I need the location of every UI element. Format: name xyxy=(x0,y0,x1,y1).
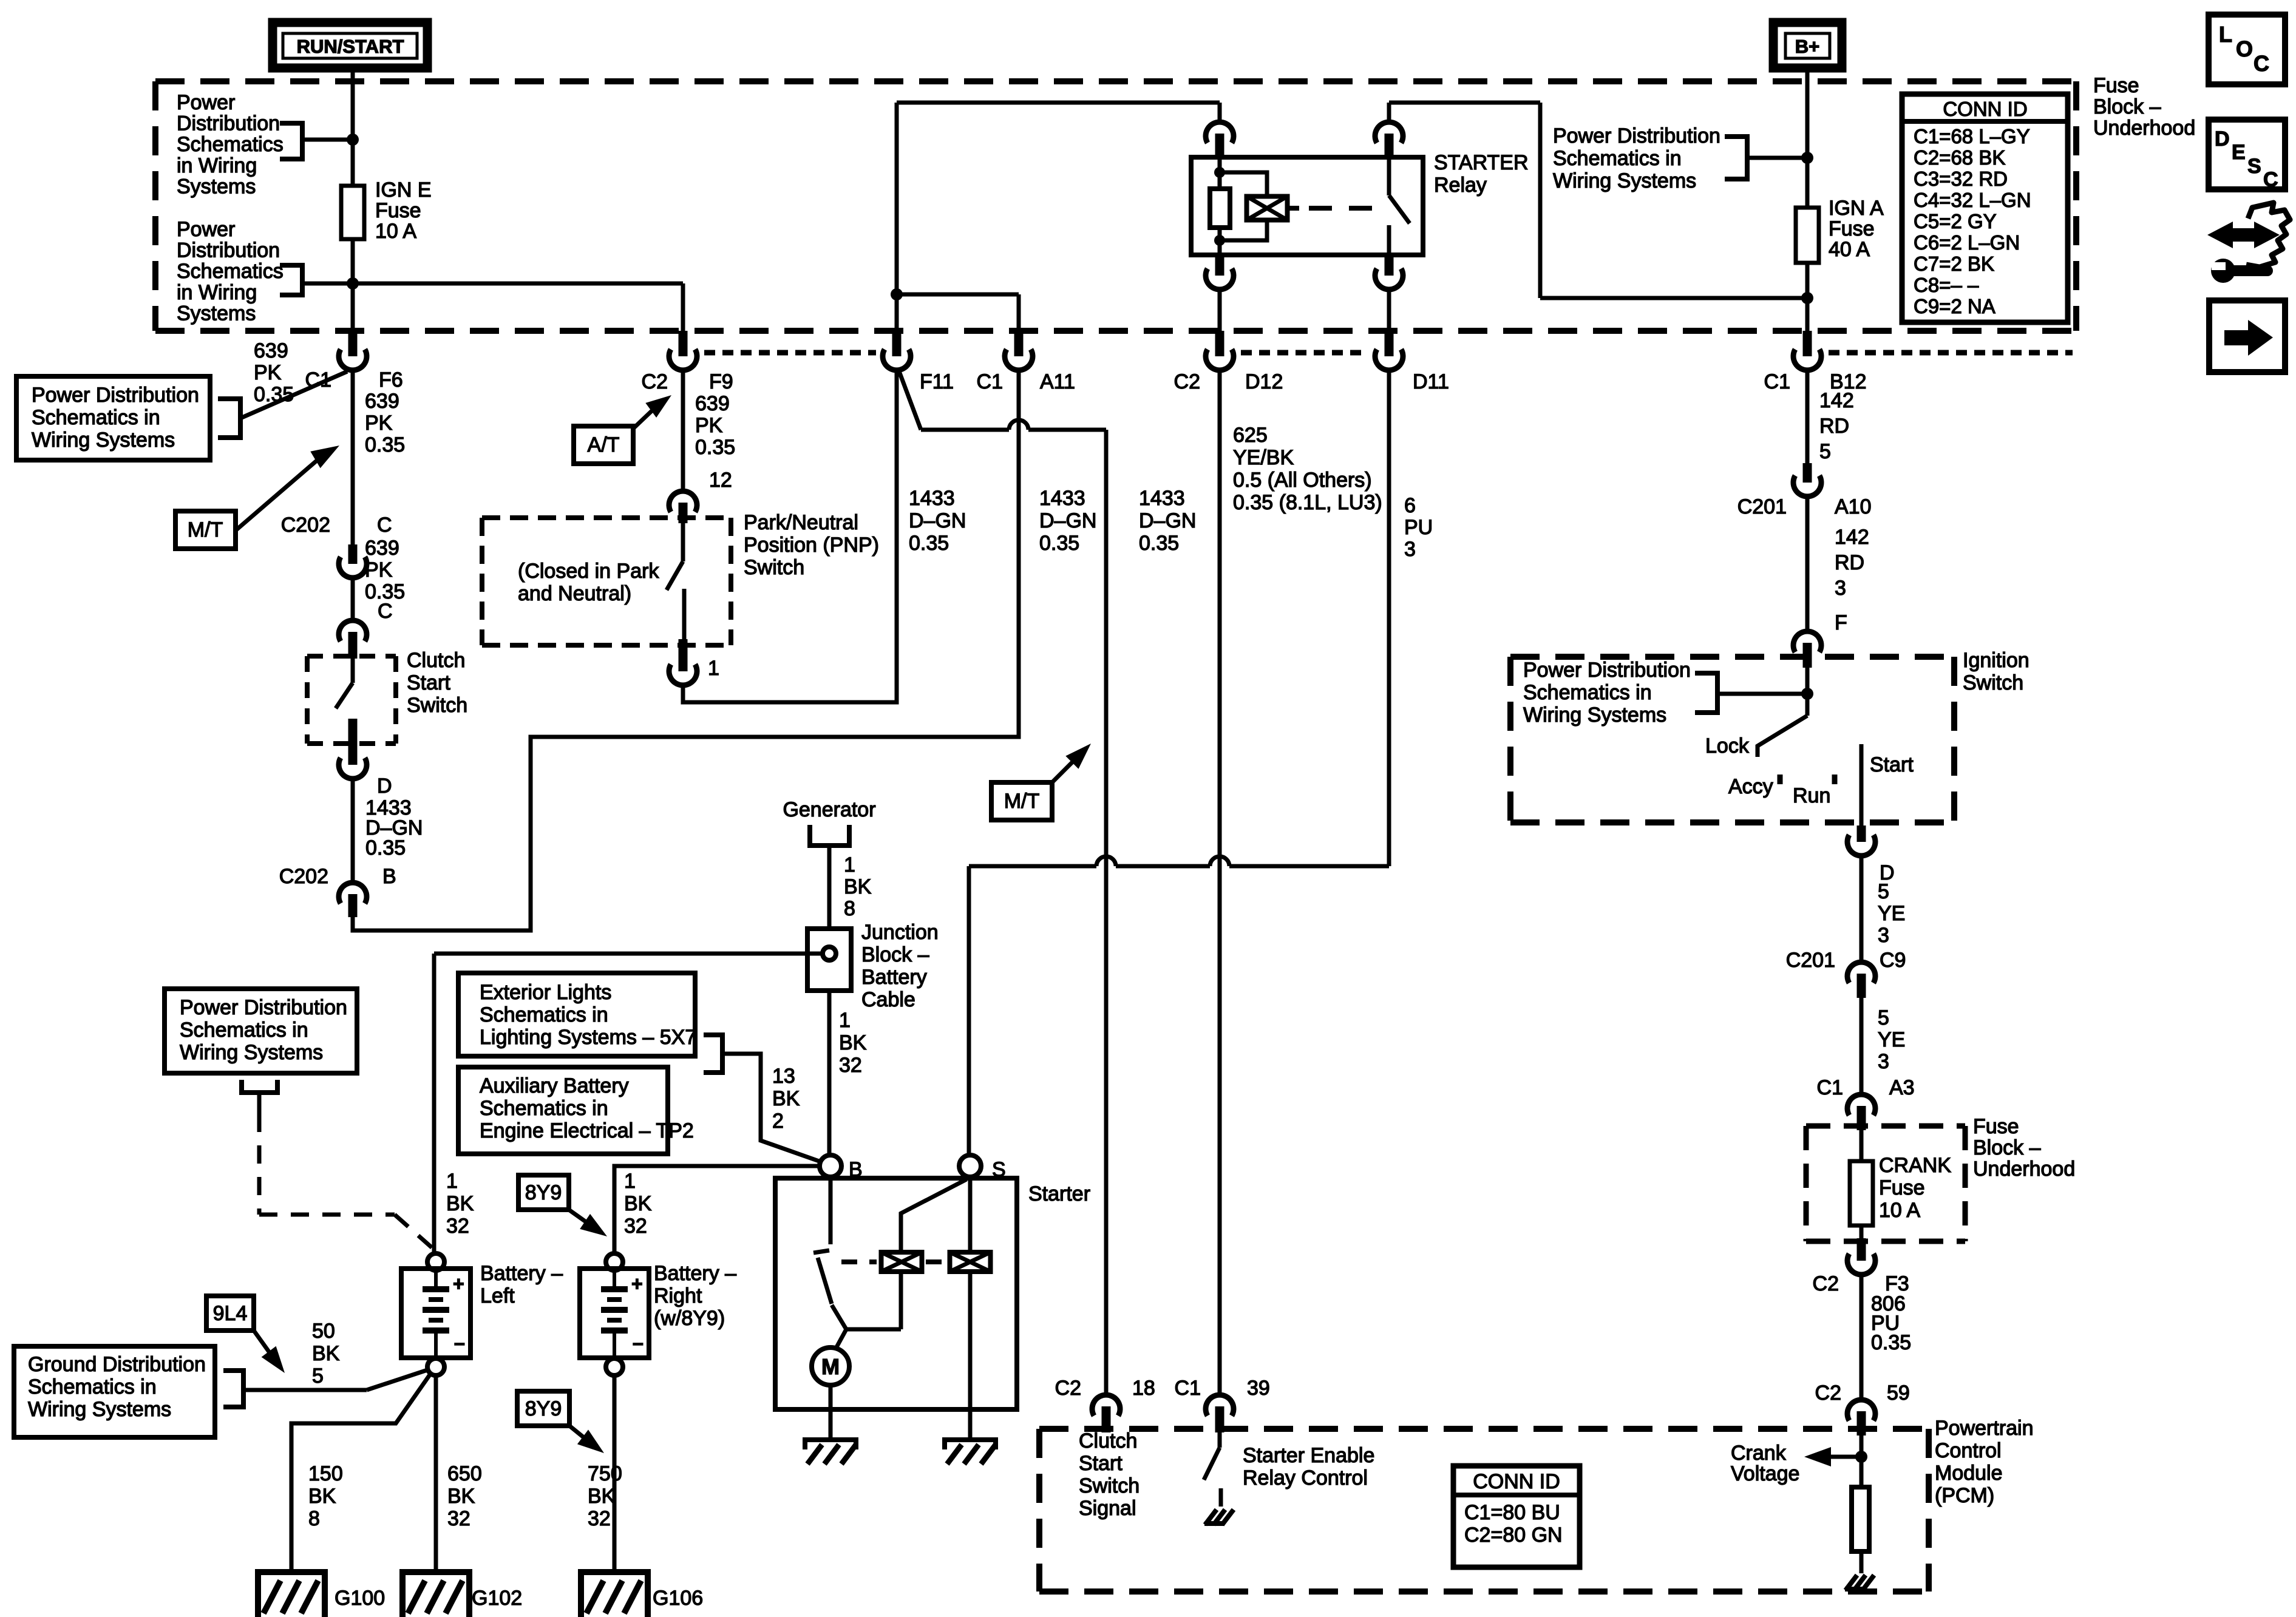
svg-text:Wiring Systems: Wiring Systems xyxy=(32,429,175,452)
svg-text:Power Distribution: Power Distribution xyxy=(180,996,347,1019)
svg-text:639: 639 xyxy=(695,392,730,415)
svg-text:in Wiring: in Wiring xyxy=(177,281,257,304)
svg-text:Power Distribution: Power Distribution xyxy=(1523,659,1691,682)
svg-text:1: 1 xyxy=(708,657,719,680)
svg-text:40 A: 40 A xyxy=(1829,238,1870,261)
wire ground distribution to battery minus xyxy=(243,1388,367,1392)
svg-text:Power: Power xyxy=(177,91,235,114)
svg-text:M: M xyxy=(821,1354,840,1379)
svg-text:8: 8 xyxy=(844,897,855,920)
relay switch blade xyxy=(1387,157,1391,195)
svg-text:CONN ID: CONN ID xyxy=(1943,98,2027,120)
starter motor ground wire xyxy=(829,1385,833,1440)
connector C into clutch start switch xyxy=(339,620,367,641)
wire IGN E to F6 xyxy=(351,239,355,333)
svg-text:Schematics: Schematics xyxy=(177,133,284,156)
connector C1 39 xyxy=(1206,1395,1234,1415)
svg-text:0.35: 0.35 xyxy=(1039,532,1079,555)
wire battery minus to G102 xyxy=(434,1375,438,1572)
svg-text:Schematics in: Schematics in xyxy=(32,406,160,429)
wire C201 to F connector xyxy=(1805,497,1810,631)
svg-text:Powertrain: Powertrain xyxy=(1935,1417,2034,1440)
9L4 reference box xyxy=(206,1296,254,1331)
connector C2 F9 xyxy=(679,331,688,356)
svg-text:150: 150 xyxy=(308,1462,343,1485)
starter motor xyxy=(812,1347,849,1385)
ground G102 xyxy=(402,1572,469,1617)
svg-text:32: 32 xyxy=(588,1507,611,1530)
8Y9 reference box bottom xyxy=(517,1391,569,1426)
svg-text:C2: C2 xyxy=(1815,1381,1841,1405)
svg-text:C1: C1 xyxy=(1175,1377,1201,1400)
svg-text:3: 3 xyxy=(1835,577,1846,600)
svg-text:Ignition: Ignition xyxy=(1963,649,2029,672)
svg-text:50: 50 xyxy=(312,1320,335,1343)
svg-text:C7=2 BK: C7=2 BK xyxy=(1914,253,1994,275)
wire bracket to B+ wire xyxy=(1747,156,1807,160)
svg-text:Battery –: Battery – xyxy=(480,1262,563,1285)
svg-text:Switch: Switch xyxy=(407,694,467,717)
connector C202 B xyxy=(339,883,367,903)
svg-text:–: – xyxy=(633,1332,644,1354)
svg-text:Power: Power xyxy=(177,218,235,241)
svg-text:RD: RD xyxy=(1819,415,1849,438)
svg-text:PK: PK xyxy=(695,414,723,437)
dotted connector face right of B12 xyxy=(1829,350,2073,356)
starter hold-in wire xyxy=(968,1177,973,1253)
svg-text:C1: C1 xyxy=(977,370,1003,393)
svg-text:32: 32 xyxy=(447,1507,470,1530)
svg-text:C1=68 L–GY: C1=68 L–GY xyxy=(1914,125,2030,147)
svg-text:Accy: Accy xyxy=(1728,775,1773,798)
svg-text:RUN/START: RUN/START xyxy=(297,36,404,57)
svg-text:10 A: 10 A xyxy=(1879,1199,1920,1222)
svg-text:Fuse: Fuse xyxy=(1973,1115,2019,1138)
junction dot relay switch feed xyxy=(1801,292,1813,304)
PNP switch blade xyxy=(681,523,685,561)
svg-text:Clutch: Clutch xyxy=(1079,1429,1137,1453)
relay internal junction dots xyxy=(1214,167,1225,178)
svg-text:BK: BK xyxy=(624,1192,652,1215)
svg-text:3: 3 xyxy=(1878,924,1889,947)
svg-text:B: B xyxy=(382,865,396,888)
svg-text:D–GN: D–GN xyxy=(909,509,966,532)
svg-text:Schematics in: Schematics in xyxy=(480,1003,608,1026)
svg-text:BK: BK xyxy=(844,875,872,898)
svg-text:625: 625 xyxy=(1233,424,1268,447)
wire C202 to clutch switch connector xyxy=(351,578,355,620)
svg-text:Fuse: Fuse xyxy=(2093,74,2139,97)
svg-text:Systems: Systems xyxy=(177,175,256,198)
svg-text:59: 59 xyxy=(1887,1381,1910,1405)
svg-text:Engine Electrical – TP2: Engine Electrical – TP2 xyxy=(480,1119,694,1142)
svg-text:5: 5 xyxy=(1819,440,1831,463)
crank voltage sense xyxy=(1860,1436,1864,1487)
svg-text:Ground Distribution: Ground Distribution xyxy=(28,1353,206,1376)
svg-text:Run: Run xyxy=(1793,784,1830,807)
svg-text:D11: D11 xyxy=(1413,370,1449,393)
connector C201 A10 xyxy=(1803,463,1812,483)
crank fuse dashed box xyxy=(1806,1124,1965,1129)
junction dot power distribution 1 xyxy=(347,134,359,146)
svg-text:and Neutral): and Neutral) xyxy=(518,582,631,605)
svg-text:142: 142 xyxy=(1835,526,1869,549)
svg-text:C5=2 GY: C5=2 GY xyxy=(1914,210,1997,232)
ignition switch dashed box xyxy=(1510,654,1954,660)
CONN ID table PCM xyxy=(1453,1466,1580,1567)
svg-text:0.35: 0.35 xyxy=(365,433,405,456)
wire generator to junction block xyxy=(827,846,832,929)
svg-text:PK: PK xyxy=(365,412,393,435)
svg-text:A/T: A/T xyxy=(588,433,620,456)
svg-text:Switch: Switch xyxy=(1079,1474,1140,1497)
svg-text:C202: C202 xyxy=(279,865,328,888)
svg-text:Module: Module xyxy=(1935,1462,2003,1485)
arrow 9L4 xyxy=(254,1331,272,1356)
svg-text:Start: Start xyxy=(1870,753,1914,776)
svg-text:(Closed in Park: (Closed in Park xyxy=(518,560,659,583)
A/T reference box xyxy=(574,426,633,464)
svg-text:Start: Start xyxy=(407,671,450,694)
svg-text:Underhood: Underhood xyxy=(1973,1158,2075,1181)
svg-text:Clutch: Clutch xyxy=(407,649,465,672)
fuse IGN A 40 A xyxy=(1796,208,1819,263)
arrow M/T to wire xyxy=(236,455,323,531)
svg-text:BK: BK xyxy=(588,1485,616,1508)
mini ground PCM xyxy=(1846,1575,1857,1590)
svg-text:Cable: Cable xyxy=(861,988,915,1011)
svg-text:Switch: Switch xyxy=(1963,671,2023,694)
svg-text:0.35: 0.35 xyxy=(695,436,735,459)
svg-text:–: – xyxy=(454,1332,465,1354)
wire horizontal with hop over A11 xyxy=(921,428,1009,432)
svg-text:YE: YE xyxy=(1878,1028,1905,1051)
junction dot power distribution 2 xyxy=(347,277,359,290)
svg-text:CRANK: CRANK xyxy=(1879,1154,1951,1177)
svg-text:D: D xyxy=(377,775,392,798)
svg-text:0.35: 0.35 xyxy=(1871,1331,1911,1354)
wire F11 diagonal to clutch signal riser xyxy=(898,370,921,430)
svg-text:39: 39 xyxy=(1247,1377,1270,1400)
wire F6 down to C202 xyxy=(351,370,355,544)
svg-text:D–GN: D–GN xyxy=(1139,509,1196,532)
svg-text:Schematics in: Schematics in xyxy=(480,1097,608,1120)
relay winding to switch dashed link xyxy=(1288,206,1299,211)
svg-text:Schematics: Schematics xyxy=(177,260,284,283)
svg-text:Schematics in: Schematics in xyxy=(28,1375,157,1398)
connector C1 F6 xyxy=(348,331,358,356)
fuse block underhood dashed box xyxy=(155,78,2076,84)
svg-text:PU: PU xyxy=(1404,516,1433,539)
svg-text:(PCM): (PCM) xyxy=(1935,1484,1994,1507)
starter box xyxy=(775,1178,1017,1409)
reference box auxiliary battery xyxy=(458,1067,668,1154)
bracket power distribution mid-left xyxy=(218,399,240,438)
svg-text:1: 1 xyxy=(624,1170,636,1193)
starter S diagonal to pull-in winding xyxy=(901,1179,966,1253)
svg-text:Power Distribution: Power Distribution xyxy=(32,384,199,407)
PNP lower contact xyxy=(682,589,687,639)
connector C201 C9 xyxy=(1847,962,1875,983)
svg-text:1433: 1433 xyxy=(1039,487,1085,510)
relay bottom pin D11 connector xyxy=(1385,255,1394,276)
arrow 8Y9 bottom xyxy=(569,1426,589,1442)
svg-text:PK: PK xyxy=(254,361,282,384)
wire D to C202 B xyxy=(351,779,355,883)
svg-text:Right: Right xyxy=(654,1284,702,1307)
svg-text:C3=32 RD: C3=32 RD xyxy=(1914,168,2008,190)
wire bracket to ignition dot xyxy=(1717,692,1807,696)
svg-text:BK: BK xyxy=(447,1485,475,1508)
svg-text:+: + xyxy=(453,1273,464,1295)
svg-text:3: 3 xyxy=(1878,1050,1889,1073)
svg-text:G106: G106 xyxy=(653,1587,703,1610)
svg-text:IGN A: IGN A xyxy=(1829,197,1884,220)
svg-text:CONN ID: CONN ID xyxy=(1473,1470,1560,1493)
connector F into ignition switch xyxy=(1793,631,1821,652)
svg-text:9L4: 9L4 xyxy=(213,1302,248,1325)
svg-text:Relay Control: Relay Control xyxy=(1243,1466,1368,1490)
sidebar LOC icon xyxy=(2209,15,2285,84)
svg-text:0.35 (8.1L, LU3): 0.35 (8.1L, LU3) xyxy=(1233,491,1382,514)
svg-text:142: 142 xyxy=(1819,389,1854,412)
svg-text:Start: Start xyxy=(1079,1452,1123,1475)
svg-text:32: 32 xyxy=(446,1215,469,1238)
svg-text:F11: F11 xyxy=(920,370,954,393)
svg-text:Starter: Starter xyxy=(1028,1182,1090,1205)
svg-text:M/T: M/T xyxy=(188,518,223,541)
starter grounds xyxy=(805,1440,856,1449)
svg-text:C8=– –: C8=– – xyxy=(1914,274,1979,296)
connector C2 59 xyxy=(1847,1400,1875,1420)
svg-text:1: 1 xyxy=(844,853,855,876)
svg-text:0.5 (All Others): 0.5 (All Others) xyxy=(1233,469,1372,492)
PNP dashed box xyxy=(482,515,731,520)
svg-text:Voltage: Voltage xyxy=(1731,1462,1799,1485)
svg-text:Left: Left xyxy=(480,1284,515,1307)
svg-text:BK: BK xyxy=(446,1192,474,1215)
svg-text:Fuse: Fuse xyxy=(375,199,421,222)
svg-text:BK: BK xyxy=(308,1485,336,1508)
svg-text:in Wiring: in Wiring xyxy=(177,154,257,177)
wire bracket2 to junction xyxy=(302,282,353,286)
svg-text:Wiring Systems: Wiring Systems xyxy=(180,1041,323,1064)
svg-text:32: 32 xyxy=(839,1054,862,1077)
connector C1 A3 xyxy=(1847,1094,1875,1115)
svg-text:F9: F9 xyxy=(709,370,733,393)
svg-text:Underhood: Underhood xyxy=(2093,117,2195,140)
connector 12 into PNP switch xyxy=(669,491,697,512)
arrow 8Y9 top xyxy=(569,1210,592,1226)
wire C9 to C1 A3 xyxy=(1860,998,1864,1094)
svg-text:Exterior Lights: Exterior Lights xyxy=(480,981,611,1004)
relay winding parallel path xyxy=(1220,172,1267,198)
svg-text:3: 3 xyxy=(1404,538,1416,561)
connector C202 C (top) xyxy=(348,544,358,564)
connector 1 below PNP xyxy=(679,659,688,671)
svg-text:0.35: 0.35 xyxy=(365,836,406,859)
starter dashed link xyxy=(841,1259,877,1264)
svg-text:Crank: Crank xyxy=(1731,1442,1787,1465)
svg-text:8: 8 xyxy=(308,1507,320,1530)
svg-text:Systems: Systems xyxy=(177,302,256,325)
wire PNP 1 to F11 xyxy=(683,368,897,702)
dashed wire to battery left positive xyxy=(257,1114,262,1215)
mini ground starter enable xyxy=(1205,1510,1217,1525)
svg-text:Switch: Switch xyxy=(744,556,804,579)
svg-text:(w/8Y9): (w/8Y9) xyxy=(654,1307,725,1330)
relay coil resistor xyxy=(1218,157,1222,189)
relay winding symbol xyxy=(1247,197,1288,220)
svg-text:Position (PNP): Position (PNP) xyxy=(744,534,879,557)
wire C202 B to A11 loop xyxy=(353,368,1019,931)
wire junction to A11 xyxy=(897,293,1019,297)
svg-text:18: 18 xyxy=(1132,1377,1155,1400)
bracket power distribution 4 xyxy=(1695,673,1717,713)
battery right xyxy=(606,1253,623,1270)
svg-text:6: 6 xyxy=(1404,494,1416,517)
svg-text:8Y9: 8Y9 xyxy=(525,1397,562,1420)
svg-text:Block –: Block – xyxy=(861,943,929,966)
starter motor feed xyxy=(832,1305,846,1349)
bracket 13 BK 2 xyxy=(704,1035,722,1073)
svg-text:BK: BK xyxy=(772,1087,800,1110)
wire RUN/START to IGN E fuse xyxy=(351,68,355,186)
svg-text:32: 32 xyxy=(624,1215,647,1238)
svg-text:Auxiliary Battery: Auxiliary Battery xyxy=(480,1074,629,1097)
svg-text:Schematics in: Schematics in xyxy=(1523,681,1652,704)
svg-text:Power Distribution: Power Distribution xyxy=(1553,124,1720,147)
svg-text:Junction: Junction xyxy=(861,921,939,944)
svg-text:10 A: 10 A xyxy=(375,220,416,243)
bracket power distribution 1 xyxy=(280,123,302,159)
svg-text:C2: C2 xyxy=(1055,1377,1081,1400)
wire start to C201 C9 xyxy=(1860,856,1864,962)
svg-text:1: 1 xyxy=(839,1009,851,1032)
ignition switch wire and contact xyxy=(1805,668,1810,716)
svg-text:C9: C9 xyxy=(1880,949,1906,972)
svg-text:L: L xyxy=(2219,22,2232,47)
svg-text:YE/BK: YE/BK xyxy=(1233,446,1294,469)
wire junction block horizontal to battery left riser xyxy=(434,952,823,956)
svg-text:C201: C201 xyxy=(1737,495,1787,518)
bracket power distribution 2 xyxy=(280,265,302,295)
svg-text:F: F xyxy=(1835,611,1847,634)
svg-text:Signal: Signal xyxy=(1079,1497,1136,1520)
svg-text:Control: Control xyxy=(1935,1439,2002,1462)
M/T reference box 2 xyxy=(991,782,1052,820)
svg-text:Wiring Systems: Wiring Systems xyxy=(28,1398,171,1421)
starter windings xyxy=(881,1252,922,1272)
connector F11 xyxy=(892,331,902,356)
clutch start switch dashed box xyxy=(307,654,396,659)
svg-text:C: C xyxy=(2254,51,2269,76)
8Y9 reference box top xyxy=(518,1175,569,1210)
fuse IGN E 10 A xyxy=(341,186,364,239)
svg-text:G102: G102 xyxy=(472,1587,522,1610)
relay bottom pin D12 connector xyxy=(1215,255,1224,276)
CONN ID table fuse block xyxy=(1902,94,2068,322)
svg-text:Battery –: Battery – xyxy=(654,1262,736,1285)
svg-text:639: 639 xyxy=(365,537,399,560)
reference box exterior lights xyxy=(458,973,695,1056)
svg-text:C: C xyxy=(2263,168,2278,191)
svg-text:1: 1 xyxy=(446,1170,458,1193)
dotted connector face D12-D11 xyxy=(1241,350,1368,356)
wire D11 horizontal to S with hops xyxy=(969,864,1096,869)
starter enable relay control switch xyxy=(1218,1432,1222,1448)
wire D12 down to C1 39 xyxy=(1218,368,1222,1395)
PCM internal resistor xyxy=(1852,1487,1869,1551)
svg-text:639: 639 xyxy=(365,390,399,413)
svg-text:C2=80 GN: C2=80 GN xyxy=(1464,1524,1563,1547)
svg-text:BK: BK xyxy=(839,1031,867,1054)
RUN/START source label xyxy=(273,22,427,68)
junction dot right power distribution xyxy=(1801,152,1813,164)
svg-text:C2: C2 xyxy=(1174,370,1200,393)
svg-text:C1: C1 xyxy=(1764,370,1790,393)
svg-text:8Y9: 8Y9 xyxy=(525,1181,562,1204)
dotted connector face F9-F11 xyxy=(704,350,876,356)
svg-text:D: D xyxy=(2215,127,2230,151)
reference box power distribution mid-left xyxy=(16,376,210,460)
crank fuse xyxy=(1860,1128,1864,1161)
starter pull-in winding lower lead xyxy=(846,1327,901,1332)
M/T reference box 1 xyxy=(175,511,236,549)
svg-text:D–GN: D–GN xyxy=(1039,509,1096,532)
svg-text:639: 639 xyxy=(254,339,288,362)
svg-text:O: O xyxy=(2236,36,2253,61)
svg-text:Lock: Lock xyxy=(1705,734,1750,758)
wire bracket1 to wire xyxy=(302,138,353,142)
svg-text:C201: C201 xyxy=(1786,949,1835,972)
svg-text:Distribution: Distribution xyxy=(177,239,280,262)
svg-text:S: S xyxy=(2247,155,2261,178)
svg-text:Fuse: Fuse xyxy=(1829,217,1875,240)
svg-text:IGN E: IGN E xyxy=(375,178,432,202)
starter switch from B xyxy=(829,1177,833,1244)
svg-text:5: 5 xyxy=(312,1364,324,1388)
wire F11 relay coil feed riser xyxy=(895,103,899,333)
connector C1 A11 xyxy=(1014,331,1024,356)
ground G100 xyxy=(258,1572,325,1617)
svg-text:Lighting Systems – 5X7: Lighting Systems – 5X7 xyxy=(480,1026,696,1049)
ground distribution box xyxy=(14,1346,215,1437)
svg-text:5: 5 xyxy=(1878,880,1889,903)
svg-text:Generator: Generator xyxy=(783,798,875,821)
wire bracket to starter B (13 BK 2) xyxy=(722,1054,821,1162)
svg-text:C1=80 BU: C1=80 BU xyxy=(1464,1501,1560,1524)
svg-text:Distribution: Distribution xyxy=(177,112,280,135)
bracket right power distribution xyxy=(1725,137,1747,179)
relay coil pin connector xyxy=(1206,122,1234,143)
starter B terminal xyxy=(820,1155,841,1177)
svg-text:12: 12 xyxy=(709,469,732,492)
svg-text:BK: BK xyxy=(312,1342,340,1365)
svg-text:750: 750 xyxy=(588,1462,622,1485)
svg-text:Wiring Systems: Wiring Systems xyxy=(1553,169,1696,192)
svg-text:A11: A11 xyxy=(1040,370,1075,393)
svg-text:C4=32 L–GN: C4=32 L–GN xyxy=(1914,189,2031,211)
bracket below power distribution 3 xyxy=(242,1080,277,1093)
connector C2 18 xyxy=(1092,1395,1120,1415)
bracket ground distribution xyxy=(223,1371,243,1407)
svg-text:C6=2 L–GN: C6=2 L–GN xyxy=(1914,231,2020,254)
svg-text:Schematics in: Schematics in xyxy=(180,1019,308,1042)
svg-text:C202: C202 xyxy=(281,514,330,537)
svg-text:0.35: 0.35 xyxy=(1139,532,1179,555)
svg-text:1433: 1433 xyxy=(909,487,955,510)
